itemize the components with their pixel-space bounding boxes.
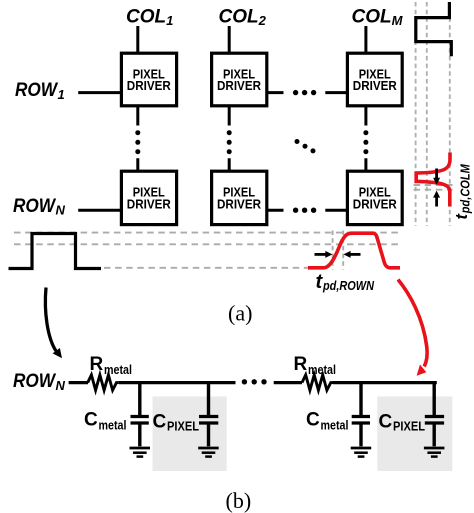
pixel driver U12 xyxy=(212,53,267,106)
wire ROWN mid stub right xyxy=(325,209,347,212)
wire COL2 between rows xyxy=(228,106,231,171)
svg-text:pd,COLM: pd,COLM xyxy=(458,164,472,214)
wire COL2 top xyxy=(228,26,231,53)
pixel driver UN1 xyxy=(121,171,176,224)
resistor R_metal 2 xyxy=(302,375,333,390)
input pulse COLM waveform (black) xyxy=(416,2,452,56)
svg-text:R: R xyxy=(294,354,308,375)
wire R1 to node1 to node2 xyxy=(119,381,236,384)
ellipsis COLM xyxy=(363,130,368,154)
wire ROWN to R1 xyxy=(69,381,88,384)
response waveform t_pd,ROWN (red) xyxy=(308,233,400,268)
label t_pd,COLM (rotated) xyxy=(453,164,472,220)
arrow up t_pd,COLM xyxy=(433,191,440,207)
svg-text:PIXEL: PIXEL xyxy=(393,419,425,434)
input pulse ROWN waveform (black) xyxy=(9,234,102,269)
ellipsis COL1 xyxy=(135,130,140,154)
wire COL1 top xyxy=(136,26,139,53)
svg-text:pd,ROWN: pd,ROWN xyxy=(322,278,374,293)
wire ROW1 mid stub right xyxy=(325,91,347,94)
wire R2 to end node xyxy=(333,381,437,384)
pixel driver U11 xyxy=(121,53,176,106)
response waveform t_pd,COLM (red) xyxy=(416,153,450,207)
dashed guide horizontal ROW level lines xyxy=(14,233,401,268)
dashed guide vertical COLM level lines xyxy=(416,2,450,226)
arrow left t_pd,ROWN xyxy=(315,251,333,258)
wire COLM between rows xyxy=(364,106,367,171)
svg-text:C: C xyxy=(306,410,320,431)
capacitor C_PIXEL 2 xyxy=(425,383,444,447)
wire COL1 between rows xyxy=(136,106,139,171)
pixel driver UNM xyxy=(347,171,402,224)
ellipsis ROW1 xyxy=(293,90,316,95)
capacitor C_metal 1 xyxy=(131,383,149,447)
arrow curved red to (b) xyxy=(398,280,427,376)
arrow down t_pd,COLM xyxy=(433,169,440,185)
ellipsis ladder xyxy=(242,379,267,384)
svg-text:ROW: ROW xyxy=(13,196,57,217)
ground C_metal 2 xyxy=(351,448,372,457)
pixel region shade 1 xyxy=(153,397,227,472)
ground C_PIXEL 1 xyxy=(198,448,219,457)
svg-text:DRIVER: DRIVER xyxy=(217,79,261,93)
arrow right t_pd,ROWN xyxy=(344,251,361,258)
svg-text:(a): (a) xyxy=(228,301,252,326)
capacitor C_PIXEL 1 xyxy=(199,383,218,447)
svg-text:DRIVER: DRIVER xyxy=(217,197,261,211)
dashed marker verticals t_pd,ROWN xyxy=(333,231,344,270)
ellipsis COL2 xyxy=(227,130,232,154)
svg-text:metal: metal xyxy=(308,362,336,377)
resistor R_metal 1 xyxy=(88,375,119,390)
svg-text:C: C xyxy=(84,410,98,431)
ground C_metal 1 xyxy=(130,448,151,457)
svg-text:PIXEL: PIXEL xyxy=(167,419,199,434)
svg-text:DRIVER: DRIVER xyxy=(127,79,171,93)
svg-text:COL2: COL2 xyxy=(219,7,267,29)
dashed marker horizontals t_pd,COLM xyxy=(414,185,453,190)
pixel region shade 2 xyxy=(377,397,452,472)
svg-text:ROW: ROW xyxy=(13,371,57,392)
svg-text:ROW: ROW xyxy=(15,80,59,101)
svg-text:metal: metal xyxy=(104,362,132,377)
wire ROW1 mid stub left xyxy=(267,91,284,94)
svg-text:COLM: COLM xyxy=(352,7,404,29)
arrow curved black to (b) xyxy=(45,288,62,359)
svg-text:N: N xyxy=(56,203,66,218)
svg-text:DRIVER: DRIVER xyxy=(127,197,171,211)
svg-text:C: C xyxy=(153,412,167,433)
wire ROWN left xyxy=(78,209,121,212)
svg-text:DRIVER: DRIVER xyxy=(353,197,397,211)
svg-text:(b): (b) xyxy=(226,488,252,513)
ground C_PIXEL 2 xyxy=(424,448,445,457)
wire to R2 xyxy=(274,381,302,384)
capacitor C_metal 2 xyxy=(352,383,370,447)
svg-text:metal: metal xyxy=(321,418,349,433)
ellipsis ROWN xyxy=(293,208,316,213)
pixel driver U1M xyxy=(347,53,402,106)
wire COLM top xyxy=(364,26,367,53)
ellipsis diagonal array xyxy=(295,139,316,153)
svg-text:C: C xyxy=(379,412,393,433)
svg-text:1: 1 xyxy=(58,87,65,102)
pixel driver UN2 xyxy=(212,171,267,224)
wire ROWN mid stub left xyxy=(267,209,284,212)
svg-text:N: N xyxy=(56,378,66,393)
svg-text:R: R xyxy=(90,354,104,375)
svg-text:metal: metal xyxy=(99,418,127,433)
svg-text:DRIVER: DRIVER xyxy=(353,79,397,93)
svg-text:COL1: COL1 xyxy=(126,7,173,29)
wire ROW1 left xyxy=(78,91,121,94)
